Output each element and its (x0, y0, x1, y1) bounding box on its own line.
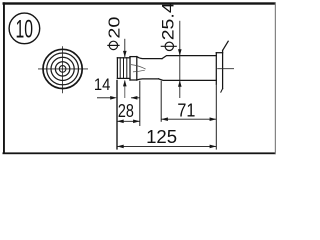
bell top diagonal (223, 41, 229, 50)
phi20 symbol bar (107, 44, 119, 46)
svg-text:71: 71 (177, 99, 195, 120)
cap bottom edge (117, 77, 130, 79)
dome hint arc upper (131, 65, 146, 70)
phi20 bottom arrowhead (123, 80, 127, 86)
dim 71 left arrowhead (161, 117, 168, 121)
dim 28 line (117, 120, 140, 122)
end face (215, 53, 217, 84)
dim 14 right tail (131, 97, 140, 99)
front view centerline horizontal (38, 68, 88, 70)
svg-text:25.4: 25.4 (158, 2, 177, 40)
cap groove line 1 (119, 58, 121, 79)
collar bottom edge (130, 79, 137, 81)
phi25.4 symbol bar (161, 45, 177, 47)
bell top connector (216, 52, 222, 54)
extension line part right (215, 84, 217, 150)
front view center circle (59, 66, 66, 73)
cap top edge (117, 57, 130, 59)
extension line part left (116, 80, 118, 150)
phi25.4 bottom arrowhead (178, 80, 182, 86)
frame left border (3, 2, 5, 154)
frame bottom border (3, 152, 276, 154)
front view circle 4 (55, 62, 69, 76)
front view circle 2 (47, 53, 79, 85)
extension line 28 right (139, 81, 141, 126)
cap groove line 2 (123, 58, 125, 79)
phi25.4 dim line (179, 21, 181, 98)
callout balloon circle (9, 13, 40, 44)
step bottom diagonal (159, 79, 217, 81)
front view centerline vertical (62, 46, 64, 93)
extension line 71 left (160, 81, 162, 122)
phi20 top arrowhead (123, 51, 127, 57)
phi20 dim line top (124, 39, 126, 57)
svg-text:14: 14 (94, 75, 111, 94)
front view circle 3 (51, 57, 74, 80)
svg-text:10: 10 (15, 15, 33, 43)
right centerline stub (217, 68, 234, 70)
dim 28 right arrowhead (133, 120, 140, 124)
dim 71 right arrowhead (210, 117, 217, 121)
side view part outline (117, 41, 228, 92)
cap right edge / collar left edge (129, 57, 131, 80)
phi25.4 symbol circle (165, 42, 173, 50)
dim 28 left arrowhead (117, 120, 124, 124)
svg-text:28: 28 (118, 101, 134, 121)
dim 125 right arrowhead (210, 145, 217, 149)
phi20 symbol circle (109, 41, 117, 49)
cap groove line 3 (126, 58, 128, 79)
frame right border (275, 2, 276, 154)
phi25.4 top arrowhead (178, 49, 182, 55)
collar right edge (136, 57, 138, 80)
dome hint arc lower (133, 70, 145, 72)
front view outer circle (43, 49, 82, 88)
transition top curve (137, 57, 162, 59)
dim 14 left arrowhead (110, 96, 117, 100)
svg-text:20: 20 (107, 16, 124, 38)
phi20 dim line bottom (124, 80, 126, 98)
cap left edge (116, 58, 118, 79)
collar top edge (130, 56, 137, 58)
dim 14 left tail (97, 97, 111, 99)
dim 125 left arrowhead (117, 145, 124, 149)
frame top border (3, 2, 276, 4)
svg-text:125: 125 (146, 127, 177, 147)
dim 125 line (117, 145, 216, 147)
dim 14 right arrowhead (131, 96, 138, 100)
transition bottom curve (137, 79, 159, 80)
dim 71 line (161, 118, 216, 120)
bell bottom tail (221, 89, 223, 93)
step top diagonal (162, 56, 216, 59)
bell lip vertical (222, 50, 224, 88)
